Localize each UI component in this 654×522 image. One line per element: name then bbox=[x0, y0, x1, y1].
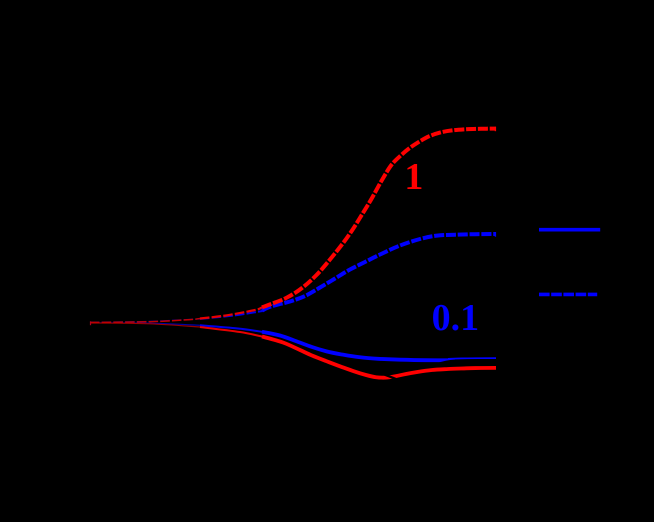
red dashed end cap bbox=[494, 127, 496, 131]
curve blue solid (thin flat start) bbox=[90, 323, 204, 326]
curve red solid (main) bbox=[262, 337, 496, 378]
start tick bbox=[90, 321, 92, 325]
legend blue solid sample bbox=[539, 228, 600, 232]
curve blue dashed (thin flat start) bbox=[90, 319, 204, 323]
black overlay under blue solid (invisible black curve) bbox=[434, 360, 496, 365]
curve blue solid thin tail bbox=[448, 357, 496, 360]
curve red dashed (main) bbox=[262, 129, 496, 308]
curve blue solid (main) bbox=[262, 332, 455, 361]
label 1 (red) bbox=[404, 155, 423, 199]
curve red solid (mid start) bbox=[200, 327, 264, 337]
curve red dashed (mid start) bbox=[200, 307, 262, 318]
curve blue dashed (mid start) bbox=[200, 311, 263, 319]
blue dashed end cap bbox=[494, 232, 496, 237]
curve red solid (thin flat start) bbox=[90, 323, 204, 327]
label 0.1 (blue) bbox=[432, 296, 480, 340]
curve blue solid (mid start) bbox=[200, 325, 264, 332]
black overlay crossing red dip (invisible black curve) bbox=[381, 373, 398, 380]
curve blue dashed (main) bbox=[262, 234, 496, 311]
curve red dashed (thin flat start) bbox=[90, 319, 200, 323]
legend blue dashed sample bbox=[539, 293, 597, 297]
